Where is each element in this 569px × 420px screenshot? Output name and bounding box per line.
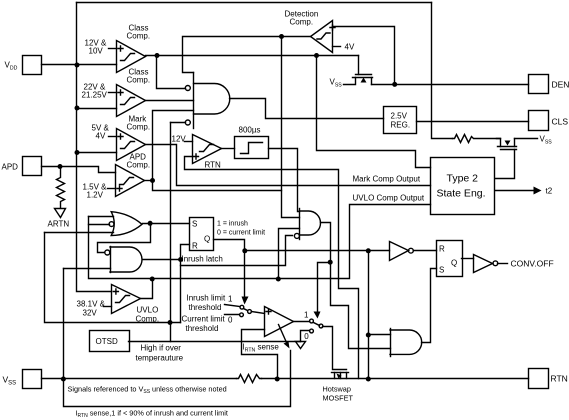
svg-text:1: 1 — [228, 295, 233, 304]
wire G2 output net — [321, 223, 391, 349]
wire top Vcc rail — [77, 2, 432, 4]
wire Vss riser to bottom rail — [64, 269, 291, 407]
wire comp1 branch to AND in2 — [157, 56, 186, 89]
wire switch pole to comparator plus — [252, 312, 265, 314]
wire G3 output to latch S — [422, 269, 437, 343]
wire detection branch down to G2 — [282, 37, 300, 218]
svg-text:Q: Q — [451, 259, 457, 268]
svg-text:800µs: 800µs — [239, 126, 261, 135]
wire CLS output — [417, 121, 529, 123]
wire class comp1 output rail — [146, 55, 359, 57]
svg-text:Mark Comp Output: Mark Comp Output — [353, 175, 421, 184]
terminal DEN — [529, 75, 549, 94]
wire comp2 minus input — [77, 108, 117, 110]
comparator class comp 1 — [117, 41, 146, 73]
wire comp3 minus input — [77, 152, 117, 154]
buffer CONV.OFF — [474, 255, 493, 273]
wire mark comp output to state engine — [146, 145, 431, 186]
svg-text:UVLO: UVLO — [137, 306, 159, 315]
and-gate inrush latch R driver — [110, 247, 112, 273]
wire G2 branch to gate switch arrow — [318, 263, 331, 312]
svg-text:Comp.: Comp. — [136, 315, 160, 324]
svg-text:IRTN sense,1 if < 90% of inrus: IRTN sense,1 if < 90% of inrush and curr… — [76, 409, 228, 420]
and-gate G3 bottom right — [390, 329, 392, 357]
svg-text:Comp.: Comp. — [127, 123, 151, 132]
comparator UVLO — [112, 285, 141, 314]
resistor classification — [453, 135, 501, 143]
wire one-shot output to G2 top — [269, 149, 300, 212]
node VDD bus junction — [75, 63, 80, 68]
wire APD input — [42, 167, 116, 173]
wire DEN output — [372, 84, 529, 86]
svg-text:32V: 32V — [83, 309, 98, 318]
svg-text:MOSFET: MOSFET — [323, 394, 354, 403]
svg-text:12V: 12V — [172, 135, 187, 144]
wire CLS mosfet gate from state engine — [496, 150, 515, 179]
comparator detection comp (points left) — [311, 21, 333, 53]
wire UVLO rail left to OR riser — [89, 217, 153, 279]
terminal VDD — [23, 56, 42, 75]
svg-text:Comp.: Comp. — [290, 18, 314, 27]
wire R input riser — [181, 245, 190, 323]
svg-text:temperauture: temperauture — [136, 354, 184, 363]
svg-text:1.2V: 1.2V — [87, 191, 104, 200]
svg-text:0 = current limit: 0 = current limit — [217, 230, 265, 237]
comparator oscillator 12V — [193, 135, 222, 164]
latch inrush SR — [190, 218, 214, 251]
wire G3 in1 — [369, 334, 391, 336]
otsd box — [90, 331, 130, 352]
comparator APD comp — [116, 165, 145, 197]
wire inrush AND output to R and G2 — [143, 259, 181, 261]
state engine box — [431, 158, 495, 215]
wire gate switch pole to hotswap gate — [323, 327, 347, 370]
wire detection comp plus feedback — [333, 27, 395, 85]
latch CONV.OFF RS — [437, 241, 463, 277]
and-gate G1 classification — [193, 73, 195, 129]
svg-text:10V: 10V — [89, 47, 104, 56]
svg-text:State Eng.: State Eng. — [437, 188, 486, 200]
wire class rail branch to state engine — [317, 56, 431, 168]
wire Vcc bus left — [77, 3, 112, 292]
wire OR output to latch S — [143, 223, 190, 225]
svg-text:DEN: DEN — [552, 80, 569, 90]
svg-text:Comp.: Comp. — [127, 32, 151, 41]
svg-text:threshold: threshold — [189, 303, 222, 312]
wire OTSD output rail — [129, 341, 301, 343]
wire latch Q output — [214, 240, 245, 251]
svg-text:UVLO Comp Output: UVLO Comp Output — [353, 194, 425, 203]
wire G1 in5 from OTSD net — [171, 122, 186, 124]
svg-text:38.1V &: 38.1V & — [77, 300, 106, 309]
svg-text:ARTN: ARTN — [48, 220, 70, 229]
wire OR in1 from UVLO riser — [89, 216, 114, 218]
svg-text:1: 1 — [304, 311, 309, 320]
wire G2 in3 from UVLO rail — [279, 229, 300, 279]
and-gate G2 middle — [299, 209, 301, 240]
wire inverter out to latch R — [414, 250, 437, 252]
svg-text:Current limit: Current limit — [182, 315, 226, 324]
svg-text:Type 2: Type 2 — [447, 173, 479, 185]
wire detection comp 4V ref stub — [333, 46, 341, 48]
ground ARTN arrow — [55, 209, 66, 218]
svg-text:2.5V: 2.5V — [391, 112, 408, 121]
wire RTN rail with sense resistor — [64, 378, 237, 380]
wire APD comp output — [145, 180, 153, 182]
svg-text:S: S — [192, 220, 197, 229]
or-gate inrush set — [111, 212, 142, 236]
wire to CONV.OFF label — [498, 263, 508, 265]
svg-text:R: R — [439, 245, 445, 254]
svg-text:Q: Q — [204, 235, 210, 244]
svg-text:S: S — [439, 266, 444, 275]
wire IRTN riser — [368, 251, 370, 379]
wire OR in2 bubble stub — [89, 224, 110, 226]
wire sense diagonal arrow — [279, 325, 287, 343]
one-shot 800us box — [235, 137, 269, 159]
svg-text:High if over: High if over — [141, 344, 182, 353]
wire class comp2 output to AND in3 — [146, 100, 194, 102]
svg-text:21.25V: 21.25V — [82, 91, 108, 100]
regulator 2.5V REG — [384, 107, 417, 134]
svg-text:CLS: CLS — [552, 117, 569, 127]
wire OTSD net vertical — [170, 123, 172, 342]
wire APD branch up to AND in4 — [153, 111, 194, 181]
svg-text:OTSD: OTSD — [96, 337, 118, 346]
wire latch Q to buffer — [462, 258, 474, 260]
svg-text:1 = inrush: 1 = inrush — [217, 221, 248, 228]
wire detection comp output rail — [183, 37, 311, 73]
wire Q arrow to threshold switch — [244, 251, 246, 297]
terminal VSS bottom — [23, 370, 42, 389]
svg-text:R: R — [192, 242, 198, 251]
svg-text:4V: 4V — [345, 43, 355, 52]
wire APD branch down rail — [153, 181, 282, 191]
svg-text:Comp.: Comp. — [127, 161, 151, 170]
wire t2 output arrow — [496, 190, 534, 192]
node comp3 tap — [75, 150, 80, 155]
wire gate switch 0 contact to OTSD rail arrow — [301, 331, 310, 342]
svg-text:Inrush latch: Inrush latch — [182, 255, 223, 264]
node APD resistor tap — [58, 164, 63, 169]
wire osc plus to RTN rail — [185, 157, 359, 379]
transistor CLS mosfet — [497, 139, 501, 147]
node detection output branch — [279, 34, 284, 39]
wire Vcc right drop to class resistor — [432, 3, 453, 139]
svg-text:threshold: threshold — [186, 324, 219, 333]
wire CLS mosfet right to Vss — [515, 138, 538, 140]
wire DEN mosfet gate drop — [358, 56, 360, 75]
terminal APD — [23, 157, 42, 176]
wire OR in3 from R-rail riser — [45, 233, 181, 323]
wire OR output jog to inrush AND bubble — [98, 224, 151, 253]
node comp2 tap — [75, 106, 80, 111]
terminal CLS — [529, 111, 549, 131]
wire inrush AND in2 from Vss riser — [64, 268, 111, 270]
svg-text:0: 0 — [304, 332, 309, 341]
svg-text:APD: APD — [2, 163, 19, 172]
wire VSS to rail — [42, 378, 64, 380]
switch gate select — [310, 319, 314, 323]
wire comparator output to gate switch — [294, 321, 310, 323]
wire Q rail to inverter — [245, 250, 390, 252]
svg-text:0: 0 — [228, 316, 233, 325]
comparator class comp 2 — [117, 85, 146, 117]
wire UVLO output up to rail — [141, 279, 153, 299]
wire UVLO rail right to state engine — [153, 205, 431, 279]
terminal RTN — [529, 369, 549, 389]
svg-text:Hotswap: Hotswap — [323, 385, 351, 394]
svg-text:RTN: RTN — [551, 374, 568, 384]
comparator current limit — [265, 307, 294, 337]
ground arrow below 0 contact — [296, 342, 306, 349]
svg-text:Comp.: Comp. — [127, 76, 151, 85]
inverter before R — [390, 242, 409, 261]
svg-text:REG.: REG. — [391, 121, 411, 130]
wire osc output to one-shot — [222, 148, 235, 150]
resistor APD-ARTN — [57, 167, 65, 208]
svg-text:4V: 4V — [96, 132, 106, 141]
svg-text:t2: t2 — [546, 187, 553, 196]
svg-text:Inrush limit: Inrush limit — [187, 294, 226, 303]
comparator mark comp — [117, 129, 146, 161]
wire G1 output to 2.5V REG — [230, 99, 384, 119]
svg-text:CONV.OFF: CONV.OFF — [511, 259, 554, 269]
transistor hotswap mosfet — [332, 372, 337, 374]
wire comparator minus sense path — [242, 330, 278, 379]
svg-text:RTN: RTN — [205, 161, 222, 170]
wire VDD to bus and comp1 — [42, 64, 117, 66]
